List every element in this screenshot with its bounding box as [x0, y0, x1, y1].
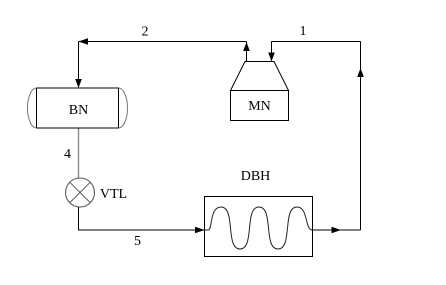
wire stream 4 BN to valve	[78, 129, 80, 179]
svg-text:VTL: VTL	[100, 187, 127, 202]
vessel BN left cap	[28, 88, 37, 128]
wire valve outlet down	[79, 207, 205, 230]
arrow DBH outlet	[332, 227, 342, 234]
valve VTL cross	[70, 182, 91, 203]
mixer MN body	[231, 91, 289, 121]
arrow stream 2 left	[79, 38, 89, 45]
mixer MN hopper trapezoid	[231, 62, 289, 91]
arrow into MN top	[268, 53, 275, 62]
vessel BN right cap	[119, 88, 128, 128]
wire stream 1 horizontal	[272, 41, 361, 43]
svg-text:DBH: DBH	[241, 169, 271, 184]
svg-text:4: 4	[64, 147, 71, 162]
svg-text:BN: BN	[69, 103, 88, 118]
svg-text:1: 1	[300, 24, 307, 39]
heater DBH box	[205, 197, 313, 257]
valve VTL circle	[66, 178, 95, 207]
vessel BN body	[37, 88, 119, 128]
wire DBH outlet	[313, 229, 361, 231]
svg-text:5: 5	[134, 234, 141, 249]
wire stream 1 drop into MN	[271, 42, 273, 62]
svg-text:MN: MN	[248, 99, 271, 114]
arrow stream 5 into DBH	[195, 227, 205, 234]
wire stream 2 horizontal	[79, 41, 247, 43]
arrow into BN top	[75, 79, 82, 88]
arrow riser up	[357, 68, 364, 77]
arrow up to stream 2	[243, 42, 250, 51]
wire MN vent up	[246, 42, 248, 62]
svg-text:2: 2	[142, 25, 149, 40]
heater DBH coil	[205, 207, 313, 249]
wire riser to stream 1	[360, 42, 362, 231]
wire stream 2 drop into BN	[78, 42, 80, 88]
